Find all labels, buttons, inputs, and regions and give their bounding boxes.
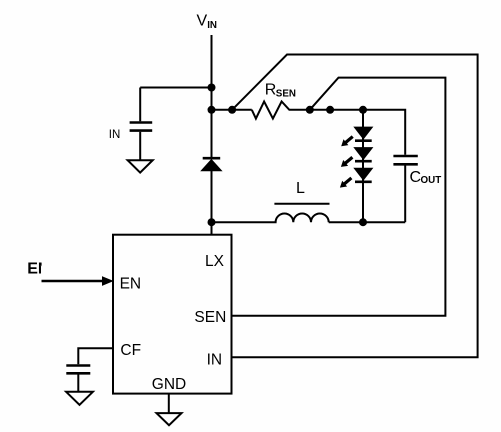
node junction dot at input cap tap bbox=[208, 84, 216, 92]
wire rail to Cout top corner bbox=[310, 110, 405, 155]
svg-text:CF: CF bbox=[120, 342, 141, 359]
capacitor COUT bbox=[393, 156, 417, 222]
wire GND pin bbox=[168, 394, 170, 414]
wire rail to Rsen bbox=[212, 109, 252, 111]
node junction dot at LED top bbox=[359, 106, 367, 114]
label L with underline bbox=[296, 180, 305, 197]
wire IN net: diagonal, top run, right drop, into IN pin bbox=[232, 55, 478, 358]
svg-text:SEN: SEN bbox=[194, 309, 226, 326]
wire to input capacitor bbox=[140, 87, 211, 89]
node junction dot at LX bbox=[208, 218, 216, 226]
svg-text:EN: EN bbox=[120, 275, 142, 292]
LED D2 light arrow bbox=[341, 156, 354, 167]
node junction dot on rail bbox=[326, 106, 334, 114]
wire bottom rail from LED bottom to inductor bbox=[329, 221, 363, 223]
node VIN label bbox=[197, 13, 218, 32]
ground (CF cap) bbox=[66, 392, 93, 405]
ground (input cap) bbox=[128, 160, 153, 172]
LED D3 light arrow bbox=[340, 177, 353, 188]
svg-text:IN: IN bbox=[207, 351, 223, 368]
node junction dot right of Rsen bbox=[306, 106, 314, 114]
wire VIN vertical down to diode bbox=[211, 35, 213, 158]
diode D4 (rectifier) bbox=[200, 158, 222, 235]
ground (GND pin) bbox=[157, 413, 182, 425]
label EN (external, clipped) bbox=[27, 260, 49, 277]
svg-text:IN: IN bbox=[109, 129, 121, 141]
wire LED string vertical bbox=[362, 110, 364, 222]
svg-text:IN: IN bbox=[207, 20, 217, 31]
LED D3 bbox=[353, 168, 373, 182]
svg-text:C: C bbox=[410, 169, 422, 186]
capacitor CF external bbox=[66, 366, 90, 392]
svg-text:EN: EN bbox=[27, 260, 49, 277]
LED D1 bbox=[353, 127, 373, 141]
wire bottom rail from Cout to LED bottom bbox=[363, 221, 405, 223]
node junction dot at LED bottom bbox=[359, 218, 367, 226]
inductor L bbox=[212, 214, 329, 223]
wire EN input arrow bbox=[42, 277, 113, 285]
label RSEN bbox=[265, 82, 296, 100]
node junction dot at rail row bbox=[208, 106, 216, 114]
svg-text:R: R bbox=[265, 82, 277, 99]
svg-text:LX: LX bbox=[205, 253, 225, 270]
label COUT bbox=[410, 169, 442, 186]
op IC U1 box bbox=[113, 235, 232, 394]
wire SEN net: diagonal, mid run, right drop, into SEN pin bbox=[232, 78, 446, 316]
wire CF to external cap bbox=[78, 348, 113, 364]
svg-text:SEN: SEN bbox=[276, 89, 296, 100]
svg-text:L: L bbox=[296, 180, 305, 197]
capacitor CIN bbox=[130, 88, 153, 161]
LED D2 bbox=[353, 147, 373, 161]
node junction dot left of Rsen bbox=[228, 106, 236, 114]
svg-text:GND: GND bbox=[152, 376, 186, 393]
svg-text:V: V bbox=[197, 13, 208, 30]
LED D1 light arrow bbox=[341, 135, 354, 146]
svg-text:OUT: OUT bbox=[421, 175, 442, 186]
resistor RSEN bbox=[252, 102, 310, 119]
